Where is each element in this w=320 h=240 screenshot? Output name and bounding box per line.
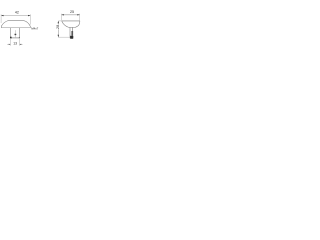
svg-text:25: 25 <box>70 10 74 14</box>
funnel bottom edge <box>70 26 76 28</box>
stem bottom corner dark left <box>10 37 12 39</box>
stem hole dot <box>14 33 16 35</box>
extension line right of 42 <box>29 14 31 24</box>
M4 stud dark tip nut <box>71 31 73 36</box>
knob cap outline front view <box>1 21 30 28</box>
cap underside line <box>1 27 30 29</box>
side view left silhouette curve <box>62 21 70 27</box>
bottom dimension left stub <box>7 43 10 45</box>
extension line top for 28 <box>59 20 61 22</box>
dimension 28 line <box>57 21 59 37</box>
side view rim top edge <box>62 20 80 22</box>
stud dark bottom <box>70 36 73 39</box>
svg-text:28: 28 <box>56 25 60 29</box>
bottom dimension extension line left <box>9 39 11 46</box>
dimension 25 left arrowhead <box>61 14 63 15</box>
dimension 28 bottom arrowhead <box>58 35 59 37</box>
dimension 42 line <box>1 15 30 17</box>
dimension 42 right arrowhead <box>28 15 30 16</box>
bottom dimension right stub <box>20 43 23 45</box>
stem centerline <box>14 30 16 37</box>
bottom dimension extension line right <box>19 39 21 46</box>
bottom dimension right arrowhead <box>20 44 22 45</box>
dimension 42 left arrowhead <box>1 15 3 16</box>
dimension 25 right arrowhead <box>77 14 79 15</box>
M4 stud left edge <box>69 28 71 39</box>
dimension 25 line <box>61 14 79 16</box>
svg-text:M4x7: M4x7 <box>31 27 38 31</box>
M4 stud right edge <box>72 28 74 39</box>
side view right silhouette curve <box>76 21 80 27</box>
stem left edge <box>9 28 11 38</box>
stem bottom edge <box>10 37 19 39</box>
stem right edge <box>19 28 21 38</box>
svg-text:42: 42 <box>15 10 19 14</box>
extension line left of 42 <box>0 14 2 23</box>
bottom dimension left arrowhead <box>9 44 11 45</box>
dimension 28 top arrowhead <box>58 21 59 23</box>
extension line bottom for 28 <box>58 36 69 38</box>
svg-text:13: 13 <box>13 42 17 46</box>
stem bottom corner dark right <box>19 37 20 38</box>
extension lines of 25 <box>62 14 80 21</box>
